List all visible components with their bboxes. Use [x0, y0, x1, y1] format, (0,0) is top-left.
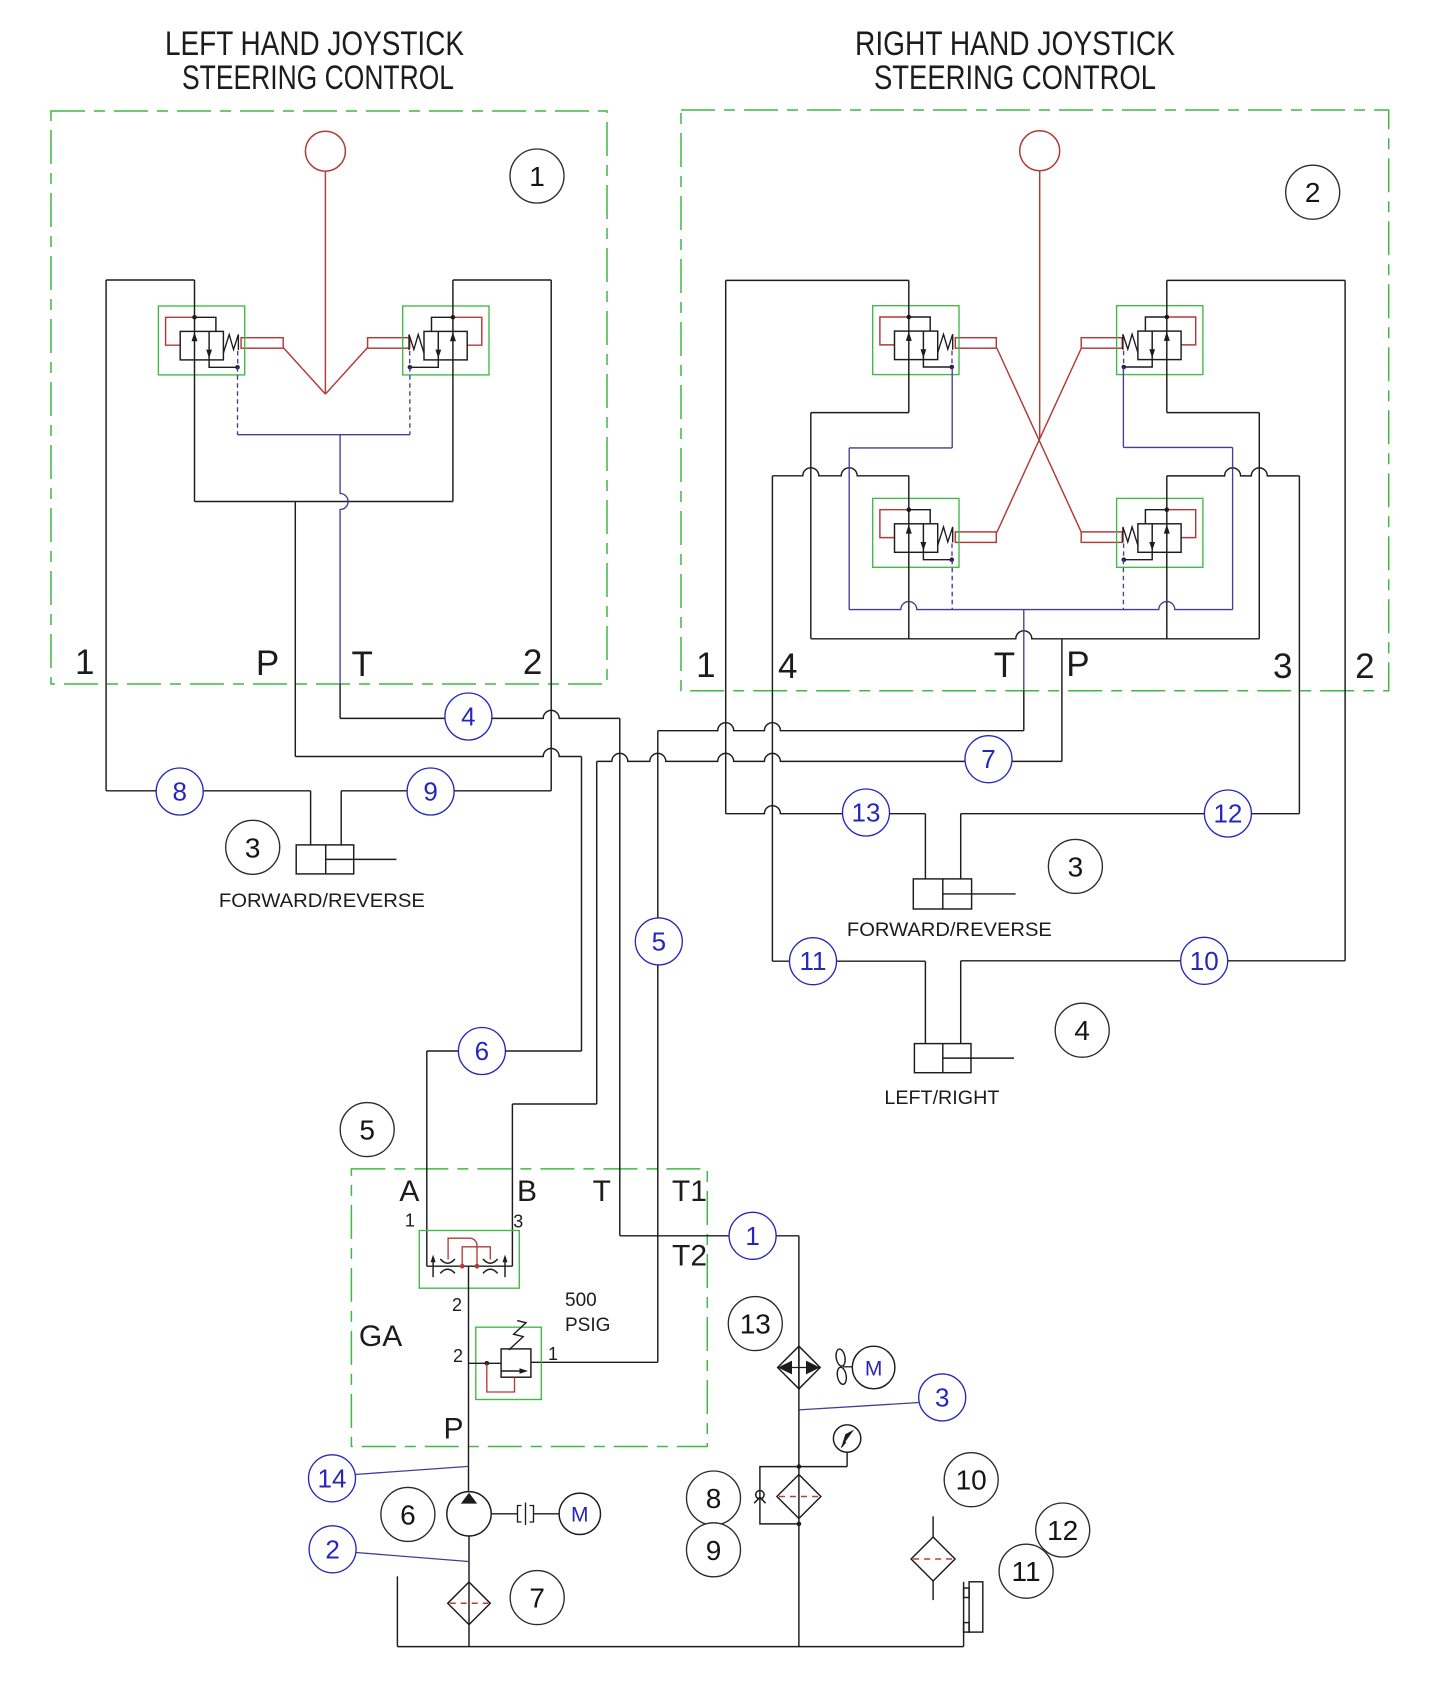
svg-text:A: A	[399, 1175, 419, 1208]
svg-text:12: 12	[1213, 799, 1242, 829]
svg-text:7: 7	[529, 1583, 545, 1614]
svg-text:5: 5	[359, 1115, 375, 1146]
svg-text:2: 2	[1305, 177, 1321, 208]
svg-text:RIGHT HAND JOYSTICK: RIGHT HAND JOYSTICK	[855, 25, 1175, 63]
svg-text:14: 14	[318, 1463, 347, 1493]
svg-text:LEFT/RIGHT: LEFT/RIGHT	[884, 1087, 999, 1109]
svg-text:3: 3	[935, 1382, 949, 1412]
svg-text:8: 8	[706, 1483, 722, 1514]
svg-text:FORWARD/REVERSE: FORWARD/REVERSE	[219, 890, 425, 912]
svg-text:13: 13	[852, 798, 881, 828]
svg-text:1: 1	[696, 646, 715, 685]
svg-text:T: T	[593, 1175, 611, 1208]
svg-text:2: 2	[452, 1295, 462, 1315]
svg-text:FORWARD/REVERSE: FORWARD/REVERSE	[847, 919, 1052, 941]
svg-text:LEFT HAND JOYSTICK: LEFT HAND JOYSTICK	[165, 25, 464, 63]
svg-text:P: P	[256, 644, 279, 683]
svg-text:12: 12	[1047, 1515, 1078, 1546]
svg-text:T: T	[352, 645, 373, 684]
svg-text:13: 13	[740, 1309, 771, 1340]
svg-text:10: 10	[956, 1465, 987, 1496]
svg-text:B: B	[517, 1175, 537, 1208]
svg-text:6: 6	[400, 1499, 416, 1530]
svg-text:4: 4	[1074, 1015, 1090, 1046]
svg-text:11: 11	[1012, 1556, 1041, 1587]
svg-text:2: 2	[325, 1534, 339, 1564]
svg-text:T2: T2	[672, 1240, 707, 1273]
svg-text:T1: T1	[672, 1175, 707, 1208]
svg-text:STEERING CONTROL: STEERING CONTROL	[874, 59, 1156, 97]
svg-text:5: 5	[652, 926, 666, 956]
svg-text:4: 4	[778, 647, 797, 686]
svg-text:1: 1	[548, 1344, 558, 1364]
svg-text:PSIG: PSIG	[565, 1315, 610, 1336]
svg-text:2: 2	[453, 1346, 463, 1366]
svg-text:4: 4	[461, 702, 475, 732]
svg-text:M: M	[865, 1358, 883, 1381]
svg-text:500: 500	[565, 1290, 597, 1311]
svg-text:7: 7	[981, 744, 995, 774]
svg-text:9: 9	[423, 777, 437, 807]
svg-text:9: 9	[706, 1535, 722, 1566]
svg-text:P: P	[1066, 645, 1089, 684]
svg-text:6: 6	[475, 1036, 489, 1066]
svg-text:2: 2	[523, 643, 542, 682]
svg-text:STEERING CONTROL: STEERING CONTROL	[182, 59, 454, 97]
svg-text:P: P	[443, 1413, 463, 1446]
svg-text:11: 11	[800, 946, 827, 976]
svg-text:8: 8	[172, 777, 186, 807]
svg-text:3: 3	[513, 1212, 523, 1232]
svg-text:10: 10	[1190, 946, 1219, 976]
svg-text:3: 3	[1273, 647, 1292, 686]
svg-text:T: T	[994, 646, 1015, 685]
svg-text:1: 1	[405, 1211, 415, 1231]
svg-text:1: 1	[745, 1221, 759, 1251]
svg-text:1: 1	[529, 161, 545, 192]
svg-text:3: 3	[1068, 851, 1084, 882]
svg-text:M: M	[571, 1504, 589, 1527]
svg-text:1: 1	[75, 643, 94, 682]
svg-text:GA: GA	[359, 1320, 402, 1353]
svg-text:3: 3	[245, 832, 261, 863]
svg-text:2: 2	[1355, 647, 1374, 686]
